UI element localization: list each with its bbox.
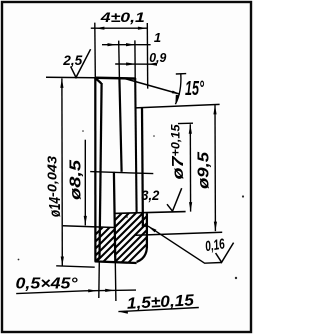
centerline (axis) <box>90 172 153 174</box>
extension of chamfer edge below part <box>98 262 101 299</box>
arrow phi9.5 top <box>213 105 216 115</box>
step shoulder vertical (x~136) <box>135 78 136 213</box>
phi9.5 dimension line (vertical, right) <box>214 105 216 231</box>
arrow 0.5x45 leader <box>88 289 98 292</box>
section vertical boundary (x~114) <box>114 172 115 262</box>
arrow phi8.5 bottom <box>84 216 87 226</box>
arrow phi14 top <box>60 78 63 88</box>
phi8.5 dimension line (vertical) <box>84 140 86 226</box>
0.16 leader line <box>148 226 222 263</box>
scan specks <box>18 130 244 279</box>
arrow dim0.9 b <box>148 63 158 66</box>
1.5+-0.15 underline with arrow <box>118 308 198 312</box>
svg-text:ø8,5: ø8,5 <box>68 159 85 200</box>
roughness check 2,5 <box>71 49 91 77</box>
15 deg cone edge (inclined line) <box>125 79 180 95</box>
arrow phi14 bottom <box>61 257 64 267</box>
right face vertical (x~142) <box>141 108 144 226</box>
phi14 dimension line (vertical, left) <box>61 78 63 266</box>
internal bore shoulder vertical (x~120) <box>119 78 121 172</box>
phi8.5 bore bottom edge + extension left <box>63 226 115 228</box>
right lower vertical (x~147) <box>146 213 148 248</box>
svg-text:0,9: 0,9 <box>149 50 167 65</box>
arrow dim1 a <box>108 43 118 46</box>
phi7 bore bottom edge + extension right <box>114 212 185 214</box>
arrow dim4 left <box>95 27 105 30</box>
arrow 0.16 leader <box>148 226 157 233</box>
part bottom edge <box>95 261 137 263</box>
bottom-left chamfer diagonal <box>96 257 101 262</box>
phi7 dimension line (vertical, right) <box>189 124 191 211</box>
svg-text:3,2: 3,2 <box>141 187 159 203</box>
svg-text:0,16: 0,16 <box>204 236 226 255</box>
corner step line at 0.16 arrow <box>142 225 147 227</box>
roughness check 3,2 <box>167 188 182 211</box>
bottom fillet curve <box>137 248 147 262</box>
svg-text:2,5: 2,5 <box>62 53 82 68</box>
dim 1: extension of shoulder x~120 up <box>118 41 121 78</box>
svg-text:15°: 15° <box>185 77 204 100</box>
svg-text:0,5×45°: 0,5×45° <box>16 276 79 293</box>
arrow phi7 bottom <box>189 202 192 212</box>
0.5x45 underline-leader + 1.5 dim line <box>16 290 136 294</box>
arrow dim4 right <box>138 27 148 30</box>
arrow phi9.5 bottom <box>214 222 217 232</box>
arrow dim0.9 a <box>126 62 136 65</box>
arrow 15deg arc bottom <box>175 95 179 105</box>
dim 4+-0.1: dimension line <box>91 27 148 29</box>
15deg top dash <box>176 73 186 75</box>
arrow dim1 b <box>126 43 136 46</box>
dim 4+-0.1: left extension line (left face extended up) <box>94 23 97 78</box>
chamfer edge line (left) <box>100 83 102 257</box>
svg-text:1: 1 <box>154 30 161 45</box>
arrow phi7 top <box>189 124 192 134</box>
dim 0.9: dimension line <box>115 63 155 65</box>
phi9.5 top generator + extension right <box>136 104 220 108</box>
top-left chamfer diagonal <box>96 78 102 83</box>
extension of section vertical below part <box>114 262 117 301</box>
svg-text:4±0,1: 4±0,1 <box>100 9 146 25</box>
hatching of section <box>60 210 181 270</box>
arrow 1.5 dim <box>105 289 115 292</box>
dim 1: dimension line <box>102 44 151 46</box>
roughness check 0,16 <box>216 243 234 263</box>
border frame <box>2 2 251 332</box>
phi14 bottom extension line <box>56 266 94 267</box>
dim 1: extension x~136 up <box>134 40 136 78</box>
part top face (phi14 top generator) with extension to left <box>95 76 135 79</box>
arrow 15deg incline end <box>172 91 180 95</box>
svg-text:ø9,5: ø9,5 <box>196 151 213 189</box>
left face of part <box>94 78 96 262</box>
arrow 1.5 underline <box>118 311 128 314</box>
15deg angle arc <box>175 74 181 104</box>
phi7 top extension stub <box>178 122 193 124</box>
dim 4+-0.1: right extension line <box>146 23 148 89</box>
svg-text:1,5±0,15: 1,5±0,15 <box>126 292 195 313</box>
phi9.5 bottom generator + extension right <box>136 232 223 235</box>
